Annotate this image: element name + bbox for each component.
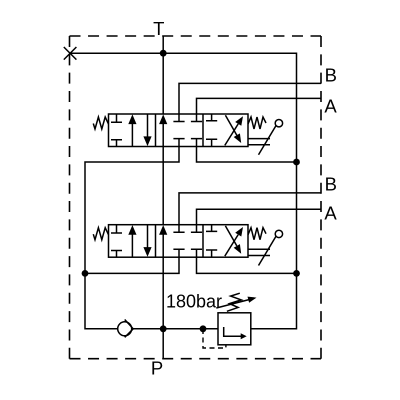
position c blocked ports: [206, 114, 217, 147]
lever arm: [259, 126, 277, 155]
wire V2 port A up and right to port A: [197, 209, 322, 224]
svg-text:A: A: [324, 96, 337, 117]
position a down arrow: [147, 114, 149, 138]
wire T port down to valve V1: [162, 36, 164, 114]
node junction feed lower: [293, 270, 300, 277]
wire V2 port B up and right to port B: [179, 193, 321, 225]
position a up arrow: [131, 122, 133, 147]
node junction P tank branch: [160, 325, 167, 332]
wire V2 down to P line and P port: [162, 257, 164, 358]
position c crossed arrows: [225, 124, 238, 145]
svg-text:A: A: [324, 203, 337, 224]
position b centre up arrow: [162, 122, 164, 147]
wire X-port to right vertical feed, down to relief valve outlet: [70, 53, 297, 329]
plugged port X symbol on boundary: [64, 47, 77, 60]
directional valve V2: [93, 225, 282, 266]
relief valve body: [218, 313, 251, 345]
relief valve drain dashed: [203, 329, 226, 348]
lever knob: [275, 120, 282, 127]
right return spring: [248, 117, 266, 129]
valve body 3 positions: [109, 114, 249, 147]
node T junction: [160, 50, 167, 57]
node junction left line: [82, 270, 89, 277]
left return spring: [93, 117, 108, 129]
position b blocked ports: [173, 114, 184, 147]
relief valve internal arrow: [224, 327, 242, 336]
position a blocked ports: [111, 114, 122, 147]
svg-text:180bar: 180bar: [166, 291, 222, 311]
node junction feed upper: [293, 159, 300, 166]
wire V1 port A up and right to port A: [197, 98, 322, 114]
svg-text:P: P: [151, 358, 163, 379]
wire V2 bottom left port down and left: [85, 257, 179, 273]
svg-text:B: B: [325, 173, 337, 194]
wire V1 bottom left port down, left and down to pump line: [85, 147, 179, 329]
relief valve spring: [227, 293, 241, 311]
svg-text:B: B: [325, 65, 337, 86]
node junction P relief branch: [200, 325, 207, 332]
check valve: [118, 322, 132, 336]
wire V1 port B up and right to port B: [179, 83, 321, 114]
lever bracket: [248, 139, 270, 145]
pump line P: [132, 328, 218, 330]
wire V1 to V2 tank gallery: [162, 147, 164, 225]
directional valve V1: [93, 114, 282, 155]
wire V2 bottom right port down and right: [197, 257, 297, 273]
wire V1 bottom right port down and right to feed vertical: [197, 147, 297, 163]
relief valve adjustment arrow: [216, 300, 249, 308]
enclosure dashed boundary box: [70, 36, 322, 359]
